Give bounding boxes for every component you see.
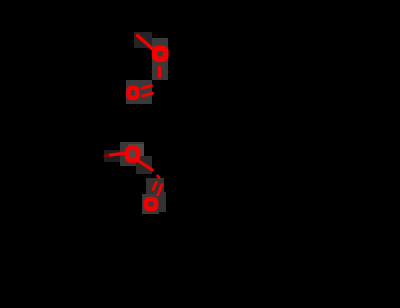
node O1 ester oxygen label (top)	[155, 48, 166, 59]
wire methyl-O bond (bottom ester)	[106, 154, 111, 158]
wire C=O double bond lower line (top ester)	[143, 93, 153, 96]
wire bond stub near carbonyl C (bottom ester)	[158, 176, 160, 178]
node O3 ester oxygen label (bottom)	[127, 148, 138, 160]
artifact blocks (jpeg halo)	[104, 32, 168, 214]
wire O-C ester bond (bottom ester)	[137, 160, 152, 170]
node O2 carbonyl oxygen label (top)	[128, 88, 137, 98]
wire C=O double bond right line (bottom ester)	[158, 185, 162, 195]
wire methyl-O bond (top ester)	[136, 34, 138, 36]
wire C=O double bond left line (bottom ester)	[153, 182, 157, 190]
wire C=O double bond upper line (top ester)	[142, 86, 152, 89]
wire O-C ester bond (top ester)	[158, 67, 161, 77]
node O4 carbonyl oxygen label (bottom)	[146, 199, 156, 209]
